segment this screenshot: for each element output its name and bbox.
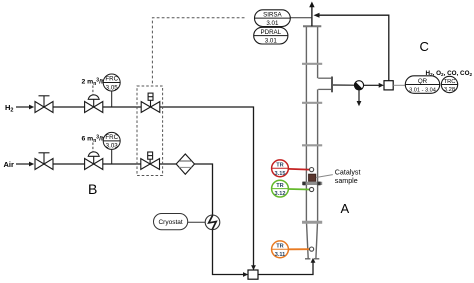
- instrument QR 3.01-3.04: [405, 76, 439, 94]
- wire: sample line to 3-way valve: [333, 84, 354, 86]
- catalyst sample square: [309, 174, 316, 181]
- port circle for TR 3.11: [310, 247, 314, 251]
- valve V4 Air with diaphragm actuator: [85, 152, 103, 170]
- wire: dashed SIRSA interlock signal: [152, 18, 244, 86]
- valve SV2 solenoid Air: [141, 152, 160, 169]
- flange 3: [302, 144, 322, 146]
- svg-text:3.03: 3.03: [106, 143, 119, 150]
- wire: H2 line valve1-valve2: [53, 106, 85, 108]
- wire: Air line solenoid-filter: [160, 163, 177, 165]
- svg-text:H2, O2, CO, CO2: H2, O2, CO, CO2: [426, 70, 473, 77]
- port circle for TR 3.15: [310, 168, 314, 172]
- instrument PDRAL 3.01: [254, 27, 288, 44]
- svg-text:TR: TR: [276, 183, 283, 189]
- svg-text:TRC: TRC: [444, 79, 456, 85]
- valve SV1 solenoid H2: [141, 93, 160, 112]
- svg-text:Catalyst: Catalyst: [335, 169, 361, 177]
- dashed interlock box: [137, 86, 163, 176]
- svg-text:3.11: 3.11: [275, 252, 286, 258]
- svg-text:PDRAL: PDRAL: [260, 29, 281, 36]
- column side arm: [318, 77, 332, 79]
- instrument TR 3.12: [288, 188, 309, 191]
- instrument TRC 3.28: [441, 76, 457, 92]
- instrument FRC 3.03: [103, 132, 120, 164]
- wire: sample to analyzer arrow: [364, 84, 380, 86]
- svg-text:3.01: 3.01: [266, 20, 279, 27]
- filter F1 diamond: [176, 154, 194, 174]
- wire: Air line valve3-valve4: [53, 163, 85, 165]
- svg-text:sample: sample: [335, 177, 358, 185]
- svg-text:QR: QR: [418, 78, 428, 85]
- wire: catalyst pointer: [316, 175, 333, 178]
- valve SV3 sample three-way: [354, 81, 363, 90]
- wire: square to QR: [393, 84, 405, 86]
- valve V1 manual H2: [35, 96, 53, 113]
- wire: H2 feed arrow: [16, 106, 30, 108]
- svg-text:A: A: [341, 201, 350, 216]
- wire: cryostat to cooler: [188, 221, 206, 223]
- svg-text:3.01 - 3.04: 3.01 - 3.04: [409, 88, 436, 94]
- wire: Air line filter to cooler and down: [195, 164, 245, 275]
- valve V2 H2 with diaphragm actuator: [85, 95, 103, 113]
- flange 4 catalyst support: [302, 182, 322, 185]
- wire: H2 main line to right and down to mixer: [160, 107, 254, 266]
- svg-text:3.28: 3.28: [444, 87, 455, 93]
- svg-text:FRC: FRC: [105, 76, 118, 83]
- svg-text:FRC: FRC: [105, 134, 118, 141]
- svg-text:Cryostat: Cryostat: [158, 219, 182, 226]
- svg-text:B: B: [88, 181, 97, 197]
- instrument TR 3.11: [288, 248, 309, 250]
- svg-text:Air: Air: [4, 160, 15, 169]
- wire: SIRSA to vent line: [290, 17, 312, 19]
- wire: sample vent down arrow: [358, 90, 360, 102]
- wire: Air line valve4-solenoid: [103, 163, 141, 165]
- port circle for TR 3.12: [310, 187, 314, 191]
- flange 5 lower: [302, 221, 322, 224]
- svg-text:C: C: [420, 39, 429, 54]
- vent stem and arrow: [311, 6, 313, 26]
- svg-text:SIRSA: SIRSA: [263, 11, 282, 18]
- reactor column A shell: [306, 26, 317, 258]
- heat-exchanger E1 cooler: [205, 215, 220, 230]
- wire: mixer to column bottom: [258, 262, 313, 275]
- svg-text:TR: TR: [276, 163, 283, 169]
- svg-text:3.12: 3.12: [275, 191, 286, 197]
- instrument Cryostat: [154, 214, 188, 230]
- wire: dashed setpoint line to V4: [92, 143, 94, 153]
- analyzer sample point square: [384, 81, 393, 90]
- instrument FRC 3.05: [103, 74, 120, 107]
- instrument TR 3.15: [288, 168, 309, 171]
- valve V3 manual Air: [35, 153, 53, 170]
- wire: analyzer return line to vent: [319, 15, 389, 81]
- column top cap flange: [303, 25, 321, 27]
- flange 1: [302, 63, 322, 65]
- wire: H2 line valve2-solenoid: [103, 106, 141, 108]
- svg-text:3.05: 3.05: [106, 84, 119, 91]
- mixer M1 square: [248, 270, 258, 279]
- flange 2: [302, 102, 322, 104]
- svg-text:3.01: 3.01: [265, 38, 278, 45]
- svg-text:3.15: 3.15: [275, 171, 286, 177]
- instrument SIRSA 3.01: [255, 10, 291, 27]
- wire: Air feed arrow: [16, 163, 30, 165]
- svg-text:TR: TR: [276, 244, 283, 250]
- wire: dashed setpoint line to V2: [92, 86, 94, 96]
- column bottom feet: [305, 258, 310, 260]
